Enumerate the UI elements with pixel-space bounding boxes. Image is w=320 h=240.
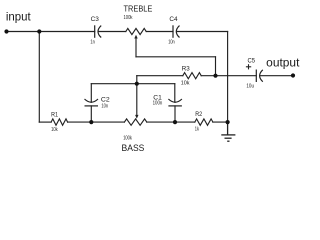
svg-text:100k: 100k [123, 135, 132, 141]
svg-text:C2: C2 [101, 96, 110, 103]
wire treble wiper down [135, 37, 137, 57]
wire wiper line to right [136, 56, 216, 58]
svg-text:100k: 100k [124, 15, 133, 21]
svg-text:output: output [266, 56, 300, 69]
wire C3 to TREBLE [98, 31, 126, 33]
wire R1 to BASS [68, 121, 125, 123]
wire R2 to ground node [213, 121, 228, 123]
node ground junction [226, 120, 230, 124]
svg-text:BASS: BASS [122, 143, 145, 153]
resistor R3 [183, 73, 201, 79]
svg-text:R3: R3 [182, 65, 190, 72]
node C1 bottom junction [173, 120, 177, 124]
node input terminal [4, 29, 8, 33]
svg-text:input: input [6, 10, 32, 23]
node input junction [37, 29, 41, 33]
node middle junction [135, 82, 139, 86]
wire C4 to top-right corner [177, 31, 228, 33]
bass wiper arrowhead [135, 115, 138, 119]
node C2 bottom junction [89, 120, 93, 124]
wire C5 to output [260, 75, 293, 77]
capacitor C3 [95, 25, 102, 38]
wire C1 to bottom [174, 106, 176, 122]
svg-text:100n: 100n [153, 101, 163, 107]
capacitor C5 [256, 70, 263, 83]
wire down to C2 [90, 84, 92, 103]
potentiometer BASS 100k [124, 119, 146, 125]
capacitor C1 [168, 99, 182, 106]
svg-text:C3: C3 [91, 16, 99, 23]
wire C2 to bottom [90, 106, 92, 122]
wire vertical input branch to R1 [38, 32, 40, 123]
node output junction [213, 74, 217, 78]
svg-text:R2: R2 [195, 111, 202, 118]
wire vertical right rail C4 to ground node [227, 32, 229, 123]
svg-text:10u: 10u [246, 84, 254, 90]
wire R3-left down to junction [136, 76, 138, 84]
wire input to C3 [7, 31, 95, 33]
capacitor C5 plus sign [246, 64, 251, 69]
capacitor C4 [173, 25, 180, 38]
svg-text:C4: C4 [169, 16, 177, 23]
svg-text:TREBLE: TREBLE [124, 4, 153, 14]
wire down to C1 [174, 84, 176, 103]
potentiometer TREBLE 100k [126, 28, 146, 34]
wire junction down to bass wiper [136, 84, 138, 117]
svg-text:10n: 10n [168, 40, 175, 46]
svg-text:1k: 1k [195, 127, 199, 133]
wire bottom R1 left [39, 121, 51, 123]
wire R3 to C5 [201, 75, 256, 77]
svg-text:10k: 10k [51, 127, 58, 133]
node output terminal [291, 73, 295, 77]
wire middle horizontal C2 to C1 [91, 83, 175, 85]
svg-text:C5: C5 [248, 58, 256, 65]
treble wiper arrowhead [134, 35, 137, 39]
wire TREBLE to C4 [146, 31, 173, 33]
svg-text:1n: 1n [90, 40, 95, 46]
svg-text:10k: 10k [181, 80, 190, 86]
resistor R1 [51, 119, 68, 125]
svg-text:10n: 10n [101, 104, 108, 110]
resistor R2 [195, 119, 213, 125]
svg-text:R1: R1 [51, 112, 58, 119]
wire BASS to R2 [147, 121, 195, 123]
wire down to output node [215, 57, 217, 76]
ground [221, 122, 235, 141]
capacitor C2 [85, 99, 99, 106]
wire R3 left segment [137, 75, 183, 77]
